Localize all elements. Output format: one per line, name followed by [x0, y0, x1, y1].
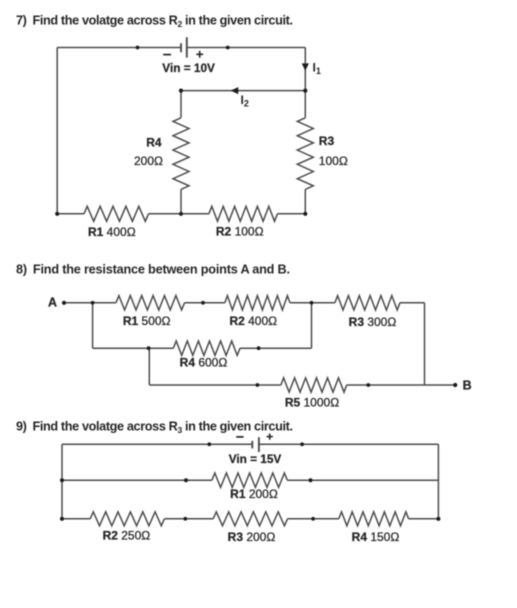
svg-text:A: A: [48, 296, 57, 310]
svg-text:R5 1000Ω: R5 1000Ω: [285, 396, 339, 410]
svg-text:R3 300Ω: R3 300Ω: [349, 315, 397, 329]
svg-text:R2 250Ω: R2 250Ω: [103, 529, 151, 543]
svg-text:R2 100Ω: R2 100Ω: [216, 225, 264, 239]
svg-text:R1 400Ω: R1 400Ω: [88, 225, 136, 239]
svg-text:R1 500Ω: R1 500Ω: [123, 314, 171, 328]
svg-text:R4 150Ω: R4 150Ω: [352, 530, 400, 544]
svg-text:R3 200Ω: R3 200Ω: [228, 530, 276, 544]
svg-text:R4: R4: [146, 136, 162, 150]
svg-text:9)Find the volatge across R3 i: 9)Find the volatge across R3 in the give…: [16, 420, 293, 436]
svg-text:R4 600Ω: R4 600Ω: [180, 356, 228, 370]
svg-text:100Ω: 100Ω: [319, 154, 348, 168]
svg-text:Vin = 15V: Vin = 15V: [229, 452, 282, 466]
svg-text:8)Find the resistance between: 8)Find the resistance between points A a…: [16, 263, 290, 277]
svg-text:Vin = 10V: Vin = 10V: [162, 61, 215, 75]
svg-text:7)Find the volatge across R2 i: 7)Find the volatge across R2 in the give…: [16, 14, 293, 30]
svg-text:B: B: [463, 379, 472, 393]
svg-text:R1 200Ω: R1 200Ω: [230, 487, 278, 501]
svg-text:200Ω: 200Ω: [134, 154, 163, 168]
svg-text:R3: R3: [319, 134, 335, 148]
svg-text:R2 400Ω: R2 400Ω: [229, 314, 277, 328]
